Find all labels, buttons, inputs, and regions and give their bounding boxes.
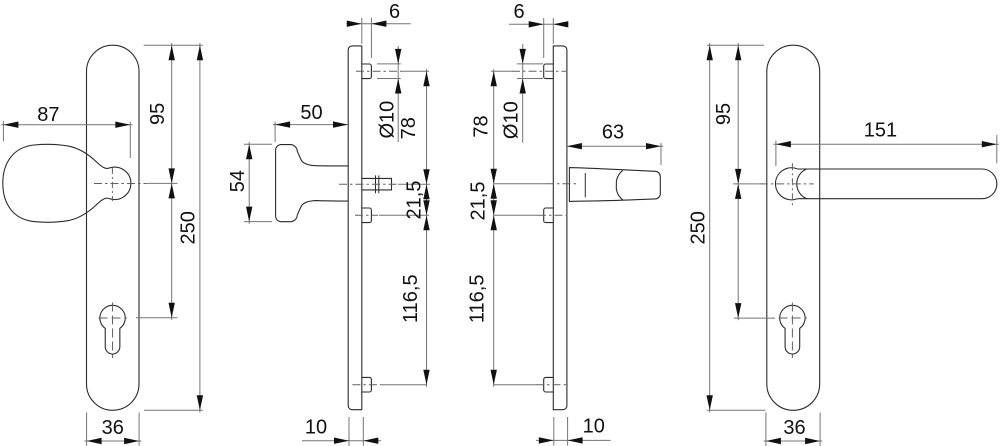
dimension 250 (plate height): [178, 43, 204, 413]
svg-text:250: 250: [178, 211, 200, 244]
lever H1 rose outer arc: [775, 168, 797, 200]
center line, lug F2: [355, 214, 378, 216]
center line, lever axis horizontal: [760, 183, 814, 185]
extension line, knob K1 center: [146, 182, 178, 184]
svg-text:6: 6: [389, 1, 400, 23]
dimension 95 (plate top to knob axis): [147, 43, 175, 183]
dimension Ø10 (lug diameter): [377, 46, 402, 142]
extension line, lug F6 center to dim: [494, 384, 536, 386]
lever H1 grip left end arc (front view): [797, 169, 807, 199]
svg-text:36: 36: [102, 417, 124, 439]
lever H1 break line: [584, 173, 586, 197]
dimension 151 (lever length): [773, 120, 999, 167]
extension line, keyhole E1 center: [136, 317, 178, 319]
dimension 54 (knob face height): [227, 142, 272, 224]
plate P1 (knob backplate, front view): [87, 45, 140, 410]
center line, lug F6: [536, 384, 568, 386]
extension line, plate P4 top: [707, 44, 764, 46]
svg-text:21,5: 21,5: [404, 181, 426, 220]
center line, lug F4: [512, 70, 568, 72]
svg-text:50: 50: [300, 102, 322, 124]
extension line, spindle center to dim: [398, 183, 430, 185]
extension line, plate P4 bottom: [707, 409, 766, 411]
extension line, plate P1 bottom: [144, 409, 203, 411]
dimension chain segment (knob axis to keyhole): [169, 183, 175, 320]
dimension 50 (knob projection): [273, 102, 348, 142]
plate P4 (lever backplate, front view): [767, 45, 820, 410]
fixing lug F4 (top, side view): [544, 64, 554, 79]
knob K1 side profile: [276, 145, 348, 222]
dimension 21,5 (spindle to middle lug): [404, 181, 430, 220]
extension line, lug F4 center to dim: [491, 70, 512, 72]
dimension 36 (plate width): [84, 413, 141, 446]
dimension 10 fig3 (plate bottom offset): [536, 416, 611, 446]
extension line, lug F5 center to dim: [494, 214, 538, 216]
keyhole E2 (euro profile cylinder hole): [780, 305, 805, 354]
svg-text:78: 78: [470, 115, 492, 137]
svg-text:87: 87: [37, 104, 59, 126]
svg-text:10: 10: [583, 416, 605, 438]
svg-text:Ø10: Ø10: [377, 101, 399, 139]
extension line, lug F2 center to dim: [379, 214, 429, 216]
svg-text:10: 10: [305, 416, 327, 438]
spindle S1 break lines: [376, 175, 379, 193]
knob K1 (front view, egg shape): [3, 144, 131, 222]
fixing lug F2 (middle, side view): [362, 208, 372, 223]
center line, keyhole E1 horizontal: [99, 317, 128, 319]
svg-text:36: 36: [783, 417, 805, 439]
extension line, plate P1 top: [144, 44, 203, 46]
svg-text:21,5: 21,5: [467, 182, 489, 221]
lever H1 side profile: [569, 168, 660, 202]
dimension Ø10 fig3 (lug diameter): [501, 44, 544, 143]
fixing lug F5 (middle, side view): [544, 208, 554, 223]
svg-text:54: 54: [227, 170, 249, 192]
fixing lug F6 (bottom, side view): [544, 377, 554, 392]
dimension 63 (lever projection): [567, 121, 663, 165]
dimension 78 (lug to spindle): [398, 69, 430, 184]
dimension 6 (lug protrusion): [346, 1, 411, 58]
center line, keyhole E2 horizontal: [779, 317, 808, 319]
spindle S1 (square spindle, side view): [362, 178, 392, 190]
dimension 116,5 (middle to bottom lug): [400, 215, 430, 387]
svg-text:250: 250: [687, 211, 709, 244]
svg-text:95: 95: [147, 103, 169, 125]
dimension 116,5 fig3: [466, 215, 497, 387]
center line, lug F5: [538, 214, 568, 216]
center line, lever axis vertical: [791, 163, 793, 205]
center line, knob K1 vertical: [111, 168, 113, 201]
dimension 95 fig4 (plate top to lever axis): [713, 43, 741, 184]
center line, spindle axis fig3: [546, 183, 578, 185]
svg-text:78: 78: [398, 117, 420, 139]
dimension 10 (plate bottom offset): [302, 416, 381, 445]
keyhole E1 (euro profile cylinder hole): [100, 305, 125, 354]
plate P2 (side view): [348, 46, 362, 410]
extension line, lug F3 center to dim: [381, 384, 427, 386]
dimension 36 fig4 (plate width): [764, 413, 823, 446]
plate P3 (side view): [553, 46, 567, 410]
dimension chain segment fig4 (lever axis to keyhole): [735, 184, 741, 320]
svg-text:6: 6: [514, 1, 525, 23]
svg-text:116,5: 116,5: [400, 274, 422, 323]
svg-text:63: 63: [602, 121, 624, 143]
dimension 6 fig3 (lug protrusion): [509, 1, 568, 58]
center line, knob K1 horizontal: [94, 183, 146, 185]
center line, keyhole E2 vertical: [791, 303, 793, 359]
center line, lug F3: [352, 384, 381, 386]
extension line, lever axis: [733, 183, 760, 185]
center line, lug F1: [356, 70, 402, 72]
extension line, spindle axis to dim fig3: [494, 183, 546, 185]
center line, keyhole E1 vertical: [112, 303, 114, 359]
svg-text:116,5: 116,5: [466, 275, 488, 324]
dimension 21,5 fig3: [467, 182, 497, 221]
fixing lug F3 (bottom, side view): [362, 377, 372, 392]
dimension 250 fig4 (plate height): [687, 43, 713, 413]
lever H1 grip (front view): [797, 169, 997, 199]
extension line, keyhole E2 center: [734, 317, 775, 319]
center line, spindle S1: [339, 183, 398, 185]
fixing lug F1 (top, side view): [362, 64, 372, 79]
lever H1 grip transition arc: [616, 170, 623, 200]
svg-text:Ø10: Ø10: [501, 101, 523, 139]
dimension 78 fig3: [470, 69, 497, 184]
svg-text:95: 95: [713, 103, 735, 125]
svg-text:151: 151: [864, 120, 897, 142]
extension line, lug F1 center to dim: [402, 70, 429, 72]
dimension 87 (knob width): [1, 104, 132, 158]
